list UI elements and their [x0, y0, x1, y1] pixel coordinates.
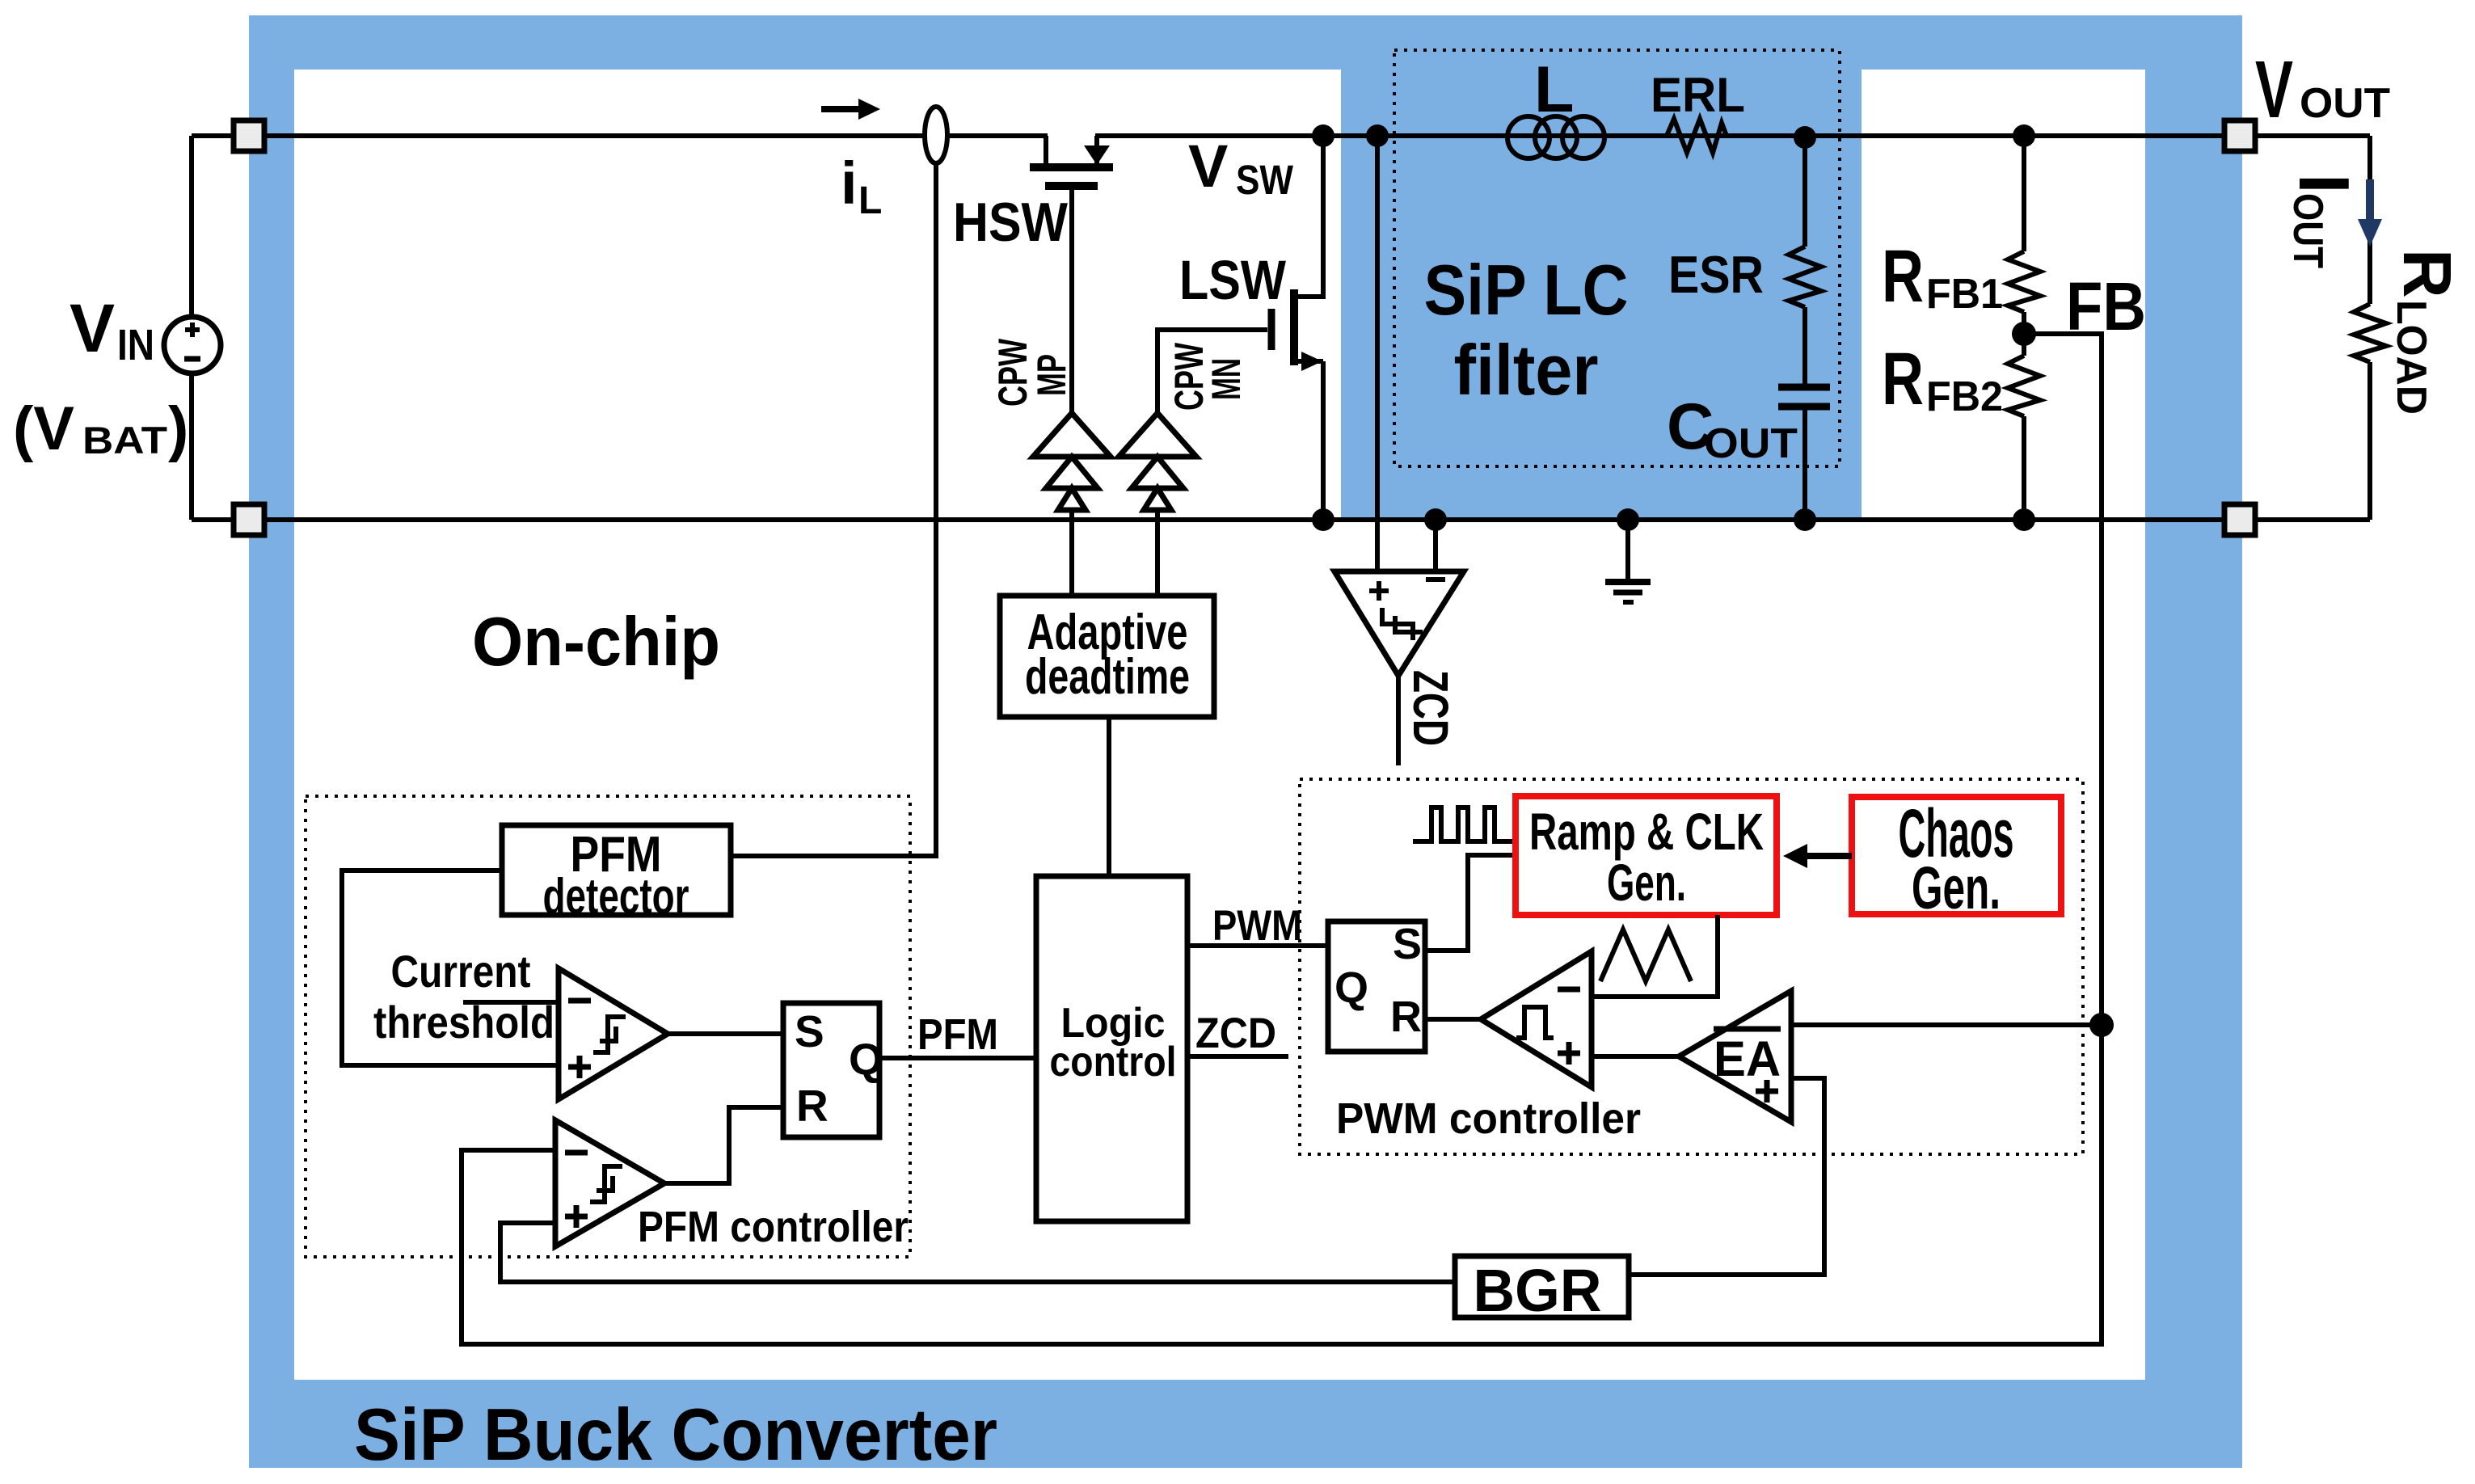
svg-text:ZCD: ZCD — [1403, 670, 1458, 746]
wire PFM detector to comparator + — [342, 871, 559, 1065]
svg-text:SiP LC: SiP LC — [1424, 250, 1629, 330]
wire VSW to ZCD + input — [1375, 136, 1380, 571]
svg-text:FB1: FB1 — [1926, 271, 2003, 318]
current sensor ellipse — [925, 107, 947, 163]
VOUT+ terminal — [2224, 120, 2255, 151]
svg-text:LOAD: LOAD — [2388, 300, 2435, 415]
resistor ERL — [1667, 119, 1727, 153]
resistor ESR — [1789, 247, 1821, 307]
wire to RFB1 — [2022, 136, 2026, 251]
wire ZCD output stub — [1187, 1054, 1288, 1059]
node VSW — [1312, 124, 1334, 147]
comparator ZCD — [1334, 571, 1464, 676]
svg-text:OUT: OUT — [1704, 420, 1798, 467]
capacitor COUT — [1778, 387, 1830, 407]
wire ground to ZCD - input — [1433, 520, 1438, 571]
svg-text:PFM controller: PFM controller — [638, 1203, 909, 1251]
wire ramp to PWM comparator - input — [1592, 915, 1718, 997]
wire RFB2 to ground rail — [2022, 416, 2026, 520]
wire ESR to COUT — [1802, 307, 1807, 386]
svg-text:R: R — [2389, 249, 2465, 298]
svg-text:V: V — [2255, 44, 2293, 135]
wire VSW to LSW drain — [1294, 136, 1323, 297]
box BGR — [1455, 1256, 1629, 1324]
node VOUT/RFB1 — [2013, 124, 2035, 147]
label (VBAT) — [13, 394, 188, 463]
wire comp2 output to latch R — [664, 1107, 783, 1183]
svg-text:ESR: ESR — [1668, 245, 1764, 304]
svg-text:Gen.: Gen. — [1912, 854, 2001, 921]
wire comp1 output to latch S — [668, 1031, 783, 1036]
wire top rail left segment — [192, 133, 1048, 138]
resistor RLOAD — [2354, 304, 2386, 362]
label VSW — [1188, 133, 1294, 203]
svg-text:Q: Q — [1334, 963, 1368, 1012]
transistor LSW (NMOS) — [1271, 289, 1323, 371]
label RLOAD (rotated) — [2388, 249, 2465, 415]
label iL — [841, 150, 882, 222]
svg-text:SiP Buck Converter: SiP Buck Converter — [354, 1394, 997, 1476]
ground symbol — [1605, 520, 1651, 602]
wire top rail right segment — [1095, 133, 2370, 138]
wire node to ESR — [1802, 137, 1807, 247]
wire EA to PWM comparator + — [1592, 1054, 1679, 1059]
svg-text:V: V — [70, 290, 115, 366]
box Adaptive deadtime — [1000, 596, 1214, 717]
svg-text:ZCD: ZCD — [1195, 1010, 1276, 1057]
svg-text:control: control — [1050, 1039, 1177, 1086]
svg-text:PFM: PFM — [917, 1010, 998, 1059]
inductor L — [1507, 116, 1604, 158]
box Ramp and CLK Gen (red) — [1516, 796, 1777, 915]
wire EA + input from BGR — [1629, 1078, 1824, 1275]
svg-text:i: i — [841, 150, 858, 217]
resistor RFB1 — [2008, 251, 2040, 312]
wire current threshold input — [463, 1000, 559, 1005]
transistor HSW (PMOS) — [1030, 136, 1113, 186]
svg-text:BGR: BGR — [1474, 1257, 1602, 1324]
svg-text:Gen.: Gen. — [1607, 854, 1686, 912]
wire PFM latch Q to logic control — [879, 1056, 1036, 1060]
svg-text:L: L — [1534, 53, 1574, 126]
svg-text:PWM: PWM — [1212, 902, 1302, 950]
svg-text:I: I — [2284, 174, 2364, 193]
SiP Buck Converter blue frame — [249, 15, 2242, 1468]
svg-text:HSW: HSW — [953, 192, 1069, 253]
node VSW sense — [1366, 124, 1389, 147]
wire comp2 + reference from BGR — [500, 1223, 1455, 1282]
PWM controller dotted box — [1300, 779, 2083, 1154]
svg-text:detector: detector — [543, 869, 689, 925]
box Logic control — [1036, 876, 1187, 1221]
PFM controller dotted box — [306, 796, 910, 1257]
label VOUT — [2255, 44, 2390, 135]
svg-text:PWM controller: PWM controller — [1336, 1094, 1641, 1143]
iL arrow — [821, 99, 880, 120]
wire from sensor down to PFM detector — [731, 163, 936, 856]
svg-text:EA: EA — [1714, 1031, 1781, 1086]
svg-text:Ramp & CLK: Ramp & CLK — [1529, 803, 1764, 861]
wire latch R to PWM comparator — [1425, 1017, 1481, 1022]
wire HSW gate — [1069, 188, 1074, 413]
wire ZCD output — [1396, 676, 1401, 765]
buffer CPW MN driver chain — [1119, 413, 1196, 596]
svg-text:R: R — [796, 1081, 829, 1131]
svg-text:(V: (V — [13, 394, 74, 463]
node ZCD minus on ground rail — [1424, 508, 1447, 531]
node ground — [1617, 508, 1639, 531]
node COUT ground — [1794, 508, 1816, 531]
label RFB2 — [1882, 338, 2003, 420]
wire LSW gate — [1157, 330, 1267, 413]
comparator PWM — [1481, 951, 1592, 1087]
wire PWM from logic to PWM latch — [1187, 943, 1328, 948]
buffer CPW MP driver chain — [1033, 413, 1111, 596]
wire deadtime to logic control — [1107, 717, 1111, 876]
node FB — [2012, 322, 2036, 346]
node LC output — [1794, 126, 1816, 149]
svg-text:BAT: BAT — [82, 419, 167, 462]
svg-text:R: R — [1882, 235, 1924, 318]
svg-text:MP: MP — [1029, 354, 1074, 396]
svg-text:ERL: ERL — [1651, 68, 1745, 122]
box Chaos Gen (red) — [1852, 795, 2061, 921]
wire COUT to ground rail — [1802, 407, 1807, 520]
wire FB feedback down and across — [462, 334, 2102, 1344]
voltage source VIN (VBAT) — [164, 317, 221, 373]
svg-text:deadtime: deadtime — [1025, 649, 1190, 705]
SR latch PWM — [1328, 920, 1425, 1052]
label VIN — [70, 290, 154, 369]
wire VOUT to RLOAD — [2367, 136, 2372, 304]
VOUT- terminal — [2224, 504, 2255, 535]
svg-text:S: S — [795, 1006, 824, 1056]
wire RFB1 to FB node — [2022, 312, 2026, 356]
resistor RFB2 — [2008, 356, 2040, 416]
svg-text:OUT: OUT — [2300, 80, 2390, 127]
CLK pulses icon — [1413, 807, 1514, 841]
svg-text:V: V — [1188, 133, 1228, 200]
svg-text:MN: MN — [1204, 358, 1249, 400]
VIN+ terminal — [234, 120, 264, 151]
arrow Chaos to Ramp — [1783, 844, 1852, 868]
error amplifier EA — [1679, 991, 1791, 1122]
wire latch S to Ramp CLK Gen — [1425, 855, 1516, 951]
svg-text:LSW: LSW — [1179, 249, 1287, 311]
wire LSW source to ground rail — [1321, 361, 1326, 520]
wire EA - input to FB line — [1791, 1022, 2102, 1027]
SiP LC filter dotted box — [1394, 50, 1840, 466]
box PFM detector — [502, 825, 731, 925]
svg-text:On-chip: On-chip — [472, 604, 720, 681]
wire VIN left vertical — [189, 136, 194, 317]
SR latch PFM — [783, 1003, 883, 1137]
sawtooth icon — [1600, 930, 1691, 981]
svg-text:): ) — [168, 394, 188, 463]
svg-text:OUT: OUT — [2284, 193, 2331, 268]
SiP LC filter blue panel — [1341, 65, 1862, 521]
IOUT arrow — [2358, 179, 2382, 247]
svg-text:filter: filter — [1454, 330, 1599, 410]
label IOUT (rotated) — [2284, 174, 2364, 268]
svg-text:SW: SW — [1236, 157, 1294, 203]
svg-text:Current: Current — [391, 946, 531, 997]
svg-text:Q: Q — [849, 1034, 883, 1084]
label COUT — [1667, 390, 1798, 467]
svg-text:FB2: FB2 — [1926, 373, 2003, 420]
node LSW source — [1312, 508, 1334, 531]
svg-text:IN: IN — [117, 321, 154, 369]
node RFB2 ground — [2013, 508, 2035, 531]
wire RLOAD to bottom rail — [2367, 362, 2372, 520]
svg-text:R: R — [1882, 338, 1924, 420]
svg-text:R: R — [1390, 993, 1422, 1041]
wire bottom rail — [192, 517, 2370, 522]
comparator PFM lower — [555, 1120, 664, 1246]
svg-text:L: L — [858, 179, 882, 222]
svg-text:S: S — [1393, 920, 1422, 968]
node FB/EA junction — [2089, 1013, 2114, 1037]
label RFB1 — [1882, 235, 2003, 318]
comparator current threshold — [559, 968, 668, 1099]
VIN- terminal — [234, 504, 264, 535]
